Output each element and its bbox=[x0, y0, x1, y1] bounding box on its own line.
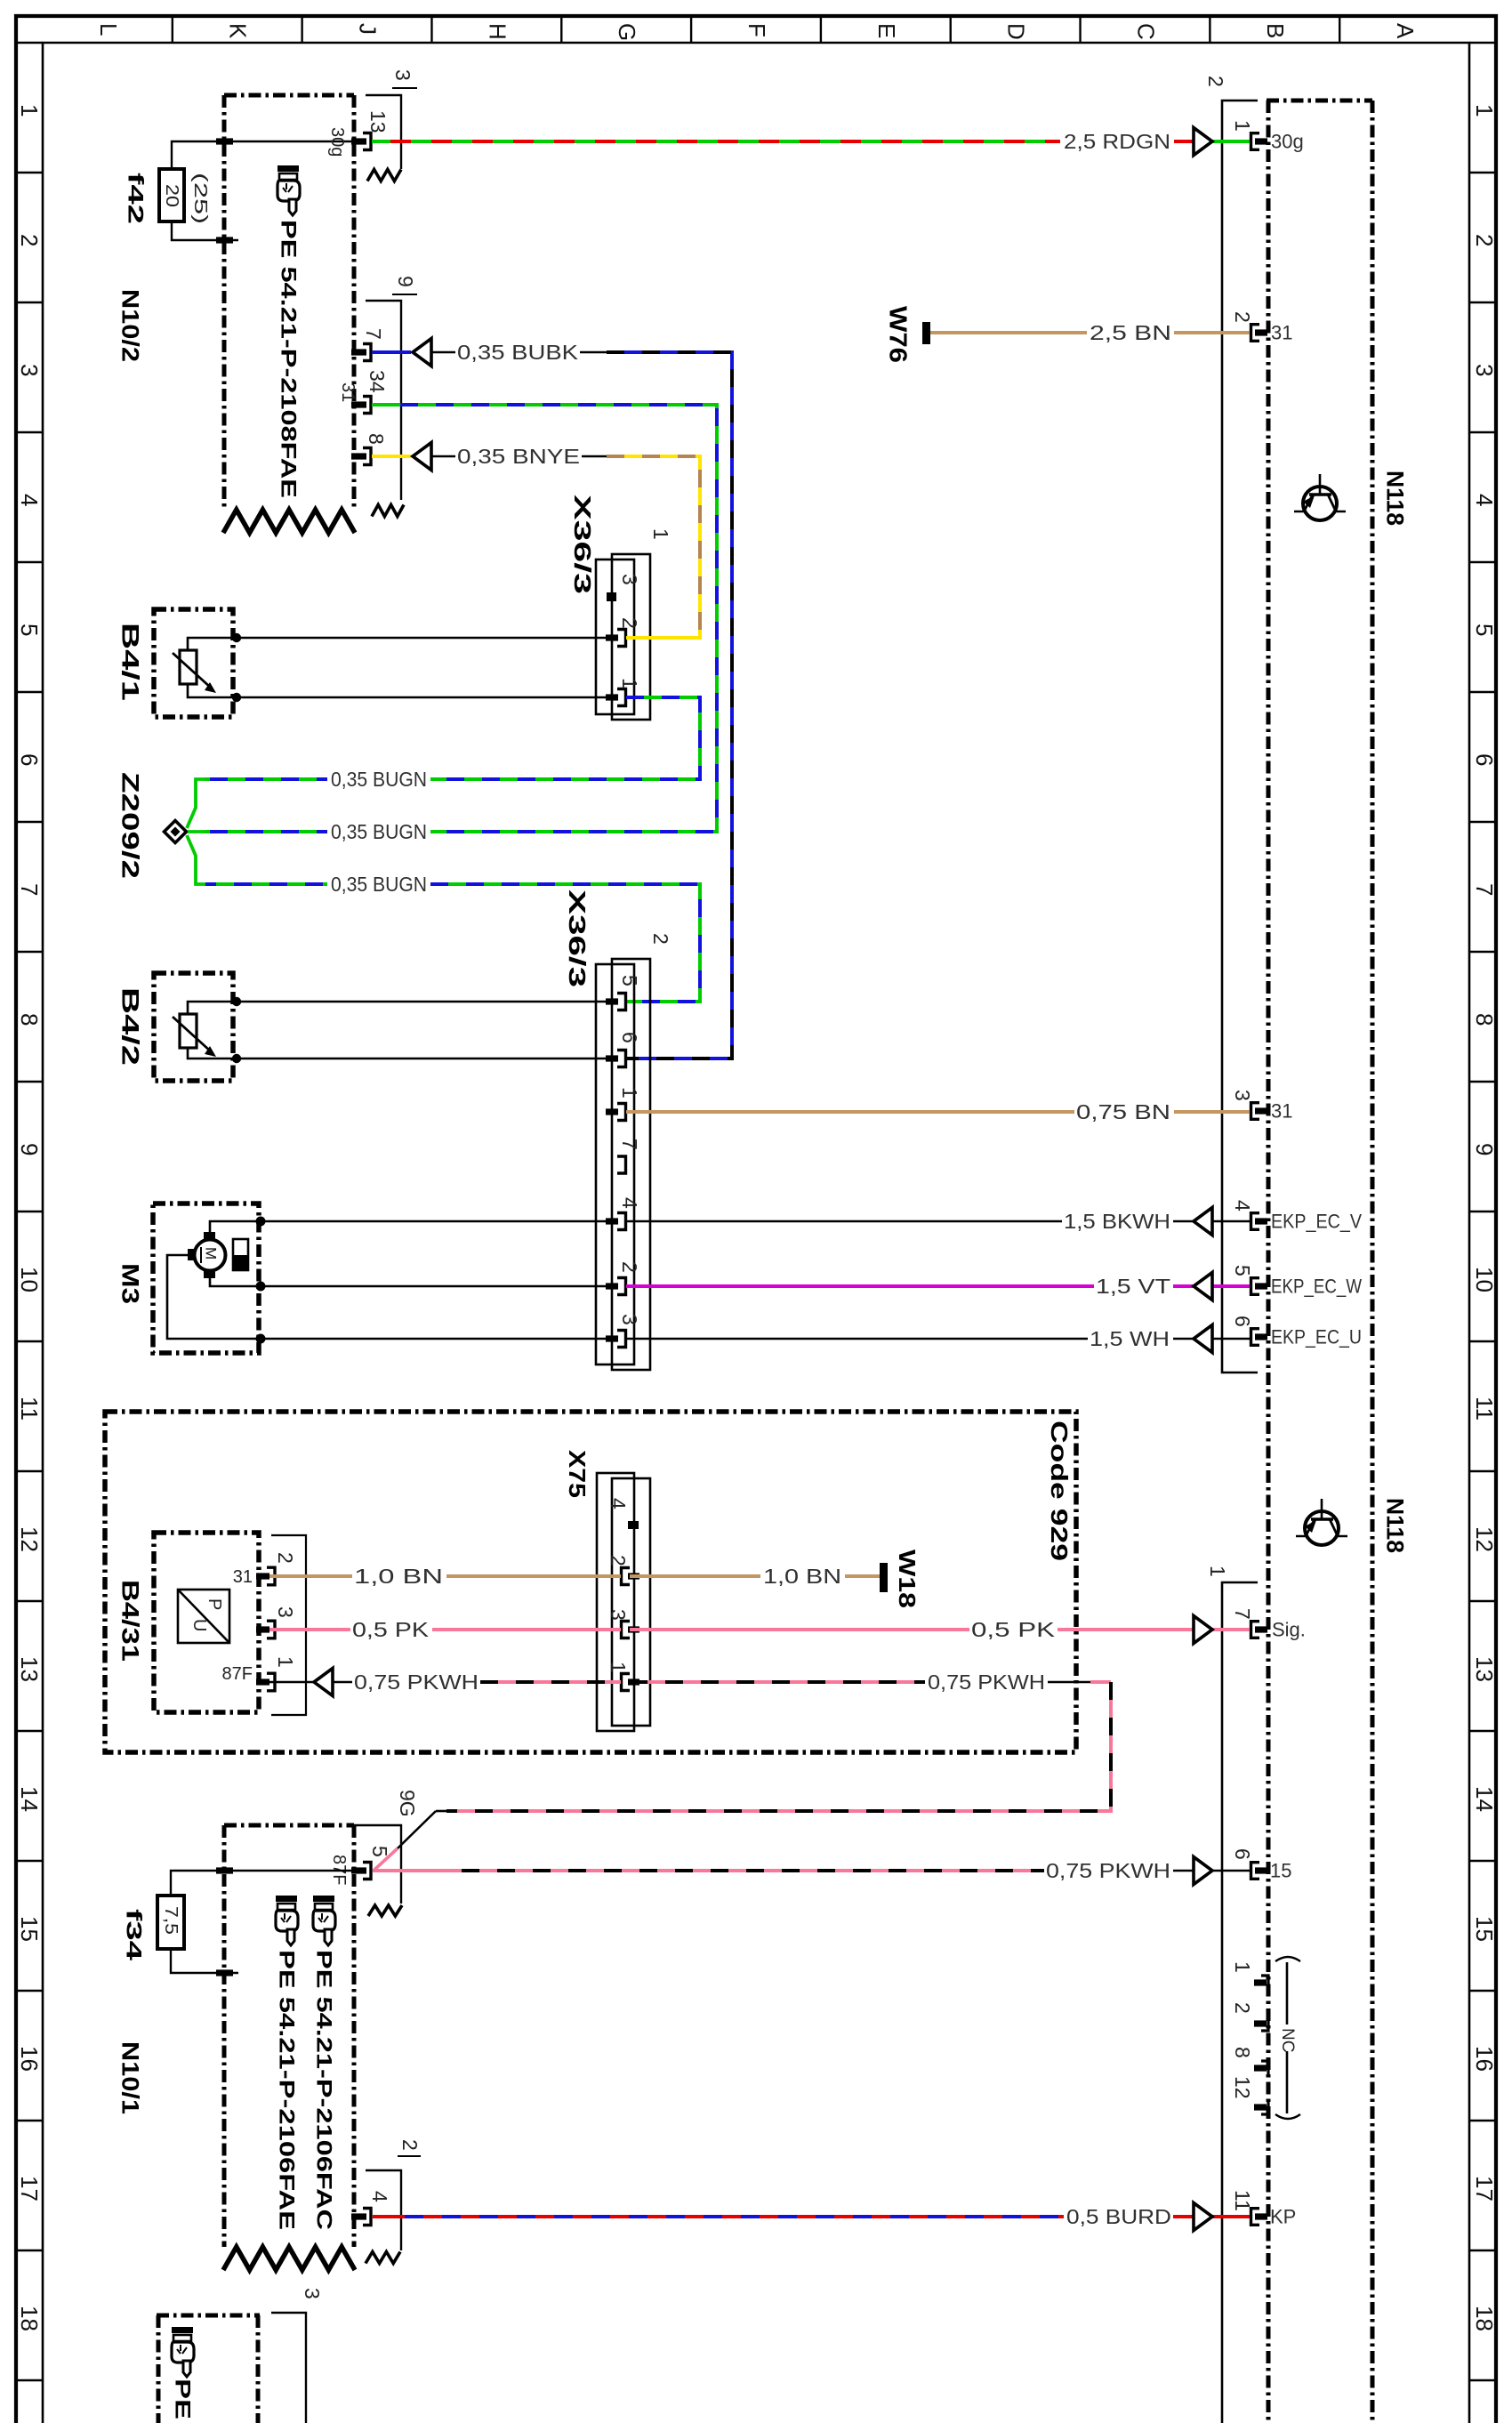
wire f42 to N10/2 pin 13 bbox=[172, 141, 351, 169]
X36/3(2) pin 5 bbox=[606, 975, 641, 1010]
svg-text:4: 4 bbox=[618, 1197, 641, 1209]
B4/31 pin 3 bbox=[256, 1606, 297, 1638]
svg-text:2: 2 bbox=[398, 2139, 422, 2151]
svg-text:10: 10 bbox=[1471, 1267, 1498, 1292]
svg-text:0,5 PK: 0,5 PK bbox=[352, 1618, 430, 1641]
X36/3(2) pin 4 bbox=[606, 1197, 641, 1230]
wire 2,5 RDGN (30g supply) bbox=[372, 140, 1060, 143]
svg-text:6: 6 bbox=[1231, 1848, 1254, 1860]
arrow on 0,35 BNYE bbox=[413, 443, 431, 471]
B4/31 P/U symbol bbox=[178, 1590, 229, 1643]
B4/1 variable resistor bbox=[180, 650, 197, 684]
svg-text:31: 31 bbox=[233, 1567, 253, 1587]
svg-text:M: M bbox=[203, 1247, 220, 1260]
svg-text:J: J bbox=[355, 23, 382, 35]
bottom PE hand icon bbox=[172, 2327, 194, 2377]
svg-text:0,75 PKWH: 0,75 PKWH bbox=[928, 1670, 1045, 1694]
svg-text:4: 4 bbox=[1231, 1200, 1254, 1211]
svg-text:2: 2 bbox=[618, 617, 641, 629]
svg-text:2: 2 bbox=[1471, 234, 1498, 246]
svg-text:5: 5 bbox=[1471, 624, 1498, 636]
wire 1,0 BN bbox=[269, 1574, 352, 1578]
svg-text:2,5 BN: 2,5 BN bbox=[1090, 321, 1171, 344]
svg-text:EKP_EC_W: EKP_EC_W bbox=[1271, 1276, 1362, 1298]
svg-text:X75: X75 bbox=[564, 1450, 591, 1498]
svg-text:A: A bbox=[1392, 23, 1419, 39]
transistor symbol U1 (N118 upper) bbox=[1294, 474, 1346, 520]
N10/1 box bottom cut zigzag bbox=[223, 2247, 355, 2270]
X36/3(2) pin 2 bbox=[606, 1261, 641, 1295]
N118 pin 4 (EKP_EC_V) bbox=[1231, 1200, 1362, 1233]
svg-text:3: 3 bbox=[1231, 1090, 1254, 1101]
svg-text:7: 7 bbox=[1471, 883, 1498, 896]
svg-text:1: 1 bbox=[649, 528, 672, 540]
B4/2 variable resistor bbox=[180, 1014, 197, 1048]
svg-text:9: 9 bbox=[1471, 1143, 1498, 1155]
wire f34 lower to N10/1 bbox=[171, 1949, 238, 1973]
svg-text:8: 8 bbox=[16, 1013, 43, 1026]
svg-text:W18: W18 bbox=[894, 1550, 921, 1608]
svg-text:16: 16 bbox=[16, 2046, 43, 2072]
svg-text:5: 5 bbox=[368, 1846, 391, 1857]
wire bottom 0,35 BUGN to X36/3(2) pin5 bbox=[205, 882, 327, 886]
wire 1,5 WH bbox=[626, 1338, 1088, 1340]
X36/3(2) pin 7 empty bbox=[617, 1156, 626, 1173]
X36/3(2) pin 1 bbox=[606, 1087, 641, 1121]
svg-text:12: 12 bbox=[1231, 2076, 1254, 2099]
wire 0,75 BN bbox=[626, 1110, 1074, 1114]
svg-text:3: 3 bbox=[618, 1314, 641, 1325]
svg-text:14: 14 bbox=[16, 1786, 43, 1812]
svg-text:3: 3 bbox=[607, 1609, 630, 1621]
svg-text:4: 4 bbox=[368, 2191, 391, 2202]
wire 1,5 BKWH bbox=[626, 1220, 1062, 1223]
svg-text:Code 929: Code 929 bbox=[1046, 1421, 1073, 1561]
svg-text:4: 4 bbox=[607, 1498, 630, 1509]
svg-text:G: G bbox=[614, 23, 640, 41]
svg-text:0,5 BURD: 0,5 BURD bbox=[1066, 2205, 1171, 2228]
svg-text:7: 7 bbox=[362, 328, 385, 340]
N10/2 pin 34 (31) bbox=[338, 370, 389, 414]
svg-text:87F: 87F bbox=[222, 1664, 253, 1684]
wire f42 lower to N10/2 bbox=[172, 221, 238, 240]
svg-text:3: 3 bbox=[16, 364, 43, 376]
svg-text:17: 17 bbox=[16, 2176, 43, 2202]
svg-text:10: 10 bbox=[16, 1267, 43, 1292]
svg-text:9: 9 bbox=[394, 276, 417, 287]
N118 connector 2 bar bbox=[1222, 101, 1258, 1372]
connector X75 body bbox=[597, 1473, 634, 1731]
svg-text:8: 8 bbox=[1231, 2047, 1254, 2058]
svg-text:1: 1 bbox=[1231, 120, 1254, 132]
svg-text:1,5 WH: 1,5 WH bbox=[1090, 1327, 1170, 1350]
svg-text:31: 31 bbox=[338, 382, 358, 402]
svg-text:Sig.: Sig. bbox=[1272, 1619, 1306, 1641]
svg-text:2: 2 bbox=[274, 1552, 297, 1564]
svg-text:2: 2 bbox=[1231, 311, 1254, 323]
svg-text:2: 2 bbox=[618, 1261, 641, 1273]
B4/2 wiring bbox=[188, 1002, 606, 1014]
svg-text:8: 8 bbox=[365, 433, 388, 445]
svg-text:1: 1 bbox=[618, 678, 641, 689]
X75 pin 3 bbox=[607, 1609, 639, 1638]
arrow on 1,5 VT bbox=[1194, 1273, 1212, 1300]
svg-text:0,35 BUGN: 0,35 BUGN bbox=[331, 873, 427, 896]
svg-text:1: 1 bbox=[618, 1087, 641, 1099]
svg-text:1,0 BN: 1,0 BN bbox=[763, 1565, 841, 1588]
arrow on 2,5 RDGN bbox=[1194, 128, 1212, 156]
svg-text:6: 6 bbox=[1231, 1316, 1254, 1327]
svg-text:16: 16 bbox=[1471, 2046, 1498, 2072]
svg-text:B4/1: B4/1 bbox=[117, 623, 144, 701]
M3 wiring bbox=[210, 1221, 606, 1232]
X36/3(1) pin 1 bbox=[606, 678, 641, 706]
svg-text:0,75 PKWH: 0,75 PKWH bbox=[1046, 1859, 1170, 1882]
N10/2 hand icon bbox=[277, 165, 300, 215]
arrow on 0,75 PKWH (terminal 15) bbox=[1194, 1857, 1212, 1885]
svg-text:12: 12 bbox=[16, 1526, 43, 1552]
svg-text:L: L bbox=[95, 23, 122, 36]
svg-text:8: 8 bbox=[1471, 1013, 1498, 1026]
wire N10/2 pin34 to splice (0,35 BUGN) bbox=[372, 403, 400, 407]
motor M3 dash-dot box bbox=[153, 1203, 259, 1353]
svg-text:2,5 RDGN: 2,5 RDGN bbox=[1064, 130, 1170, 153]
svg-text:3: 3 bbox=[618, 574, 641, 585]
svg-text:1,5 BKWH: 1,5 BKWH bbox=[1064, 1210, 1170, 1233]
svg-text:3: 3 bbox=[391, 69, 414, 81]
svg-text:7: 7 bbox=[618, 1139, 641, 1150]
svg-text:30g: 30g bbox=[1271, 131, 1304, 153]
svg-text:M3: M3 bbox=[117, 1263, 144, 1304]
X36/3(2) pin 6 bbox=[606, 1032, 641, 1067]
svg-text:2: 2 bbox=[607, 1555, 630, 1566]
svg-text:18: 18 bbox=[16, 2306, 43, 2331]
svg-text:0,75 PKWH: 0,75 PKWH bbox=[354, 1670, 479, 1694]
svg-text:0,5 PK: 0,5 PK bbox=[971, 1618, 1056, 1641]
arrow on 0,5 BURD bbox=[1194, 2203, 1212, 2231]
sensor B4/2 dash-dot box bbox=[154, 973, 233, 1081]
wire 0,35 BUBK bbox=[372, 350, 411, 354]
wire X36/3(1) pin1 to splice (0,35 BUGN) bbox=[430, 697, 700, 779]
top coordinate strip letters L-A bbox=[95, 14, 1419, 43]
svg-text:7,5: 7,5 bbox=[161, 1906, 181, 1935]
B4/1 wiring bbox=[188, 638, 606, 650]
B4/31 connector bracket bbox=[271, 1535, 306, 1715]
svg-text:3: 3 bbox=[1471, 364, 1498, 376]
ground terminal W76 bbox=[922, 322, 930, 344]
svg-text:17: 17 bbox=[1471, 2176, 1498, 2202]
svg-text:13: 13 bbox=[1471, 1656, 1498, 1682]
svg-text:1: 1 bbox=[274, 1656, 297, 1668]
sensor B4/1 dash-dot box bbox=[154, 609, 233, 717]
svg-text:1: 1 bbox=[1471, 104, 1498, 117]
svg-text:P: P bbox=[205, 1598, 224, 1610]
svg-text:F: F bbox=[744, 23, 770, 37]
wire 2,5 BN bbox=[930, 331, 1087, 334]
svg-text:2: 2 bbox=[16, 234, 43, 246]
Z209/2 green branches bbox=[187, 779, 205, 828]
svg-text:N118: N118 bbox=[1382, 471, 1409, 526]
svg-text:B4/31: B4/31 bbox=[117, 1580, 144, 1662]
svg-text:U: U bbox=[189, 1619, 209, 1631]
svg-text:1: 1 bbox=[607, 1662, 630, 1673]
N10/2 box bottom cut zigzag bbox=[223, 510, 355, 533]
N118 pin 1 (30g) bbox=[1231, 120, 1304, 153]
wire 0,75 PKWH (terminal 15) bbox=[373, 1869, 462, 1872]
N118 NC pins 1,2,8,12 bbox=[1231, 1957, 1300, 2119]
svg-text:30g: 30g bbox=[327, 127, 347, 157]
svg-text:13: 13 bbox=[366, 110, 390, 133]
svg-text:EKP_EC_V: EKP_EC_V bbox=[1271, 1211, 1362, 1233]
svg-text:5: 5 bbox=[1231, 1265, 1254, 1276]
N118 connector 1 bar bbox=[1222, 1582, 1258, 2423]
svg-text:0,35 BNYE: 0,35 BNYE bbox=[457, 445, 580, 468]
B4/31 pin 2 (31) bbox=[233, 1552, 297, 1587]
svg-text:0,35 BUGN: 0,35 BUGN bbox=[331, 820, 427, 843]
svg-text:PE 54.21-P-2106FAC: PE 54.21-P-2106FAC bbox=[312, 1950, 336, 2230]
svg-text:31: 31 bbox=[1271, 1100, 1292, 1123]
N118 pin 3 (31) bbox=[1231, 1090, 1293, 1123]
svg-text:PE 54.21-P-2106FAE: PE 54.21-P-2106FAE bbox=[275, 1950, 299, 2230]
svg-text:f34: f34 bbox=[122, 1909, 146, 1961]
svg-text:31: 31 bbox=[1271, 322, 1292, 344]
svg-text:4: 4 bbox=[16, 494, 43, 506]
N10/1 hand icons bbox=[276, 1896, 298, 1945]
wire 0,5 PK bbox=[269, 1628, 350, 1631]
svg-text:14: 14 bbox=[1471, 1786, 1498, 1812]
svg-text:11: 11 bbox=[1231, 2190, 1254, 2211]
svg-text:1,0 BN: 1,0 BN bbox=[354, 1565, 443, 1588]
wire 0,35 BNYE bbox=[372, 455, 411, 458]
ground terminal W18 bbox=[880, 1563, 888, 1592]
svg-text:4: 4 bbox=[1471, 494, 1498, 506]
wire 0,5 BURD bbox=[373, 2215, 405, 2218]
svg-text:0,35 BUGN: 0,35 BUGN bbox=[331, 768, 427, 791]
N10/2 pin 7 bbox=[351, 328, 385, 361]
splice Z209/2 symbol bbox=[165, 821, 187, 843]
wire 0,75 PKWH (Code 929) bbox=[269, 1681, 314, 1684]
svg-text:3: 3 bbox=[301, 2288, 324, 2299]
svg-text:D: D bbox=[1003, 23, 1030, 40]
svg-text:20: 20 bbox=[162, 184, 181, 207]
svg-text:5: 5 bbox=[618, 975, 641, 986]
arrow on 1,5 BKWH bbox=[1194, 1208, 1212, 1236]
svg-text:(25): (25) bbox=[190, 173, 210, 224]
wire X36/3(1) pin2 jumper (BNYE) bbox=[626, 636, 700, 640]
B4/31 pin 1 (87F) bbox=[222, 1656, 297, 1691]
svg-text:B: B bbox=[1262, 23, 1289, 38]
N10/1 pin 5 (87F) bbox=[329, 1846, 391, 1885]
connector X36/3 (1) body bbox=[596, 559, 634, 714]
svg-text:13: 13 bbox=[16, 1656, 43, 1682]
svg-text:7: 7 bbox=[16, 883, 43, 896]
svg-text:N10/2: N10/2 bbox=[117, 289, 144, 362]
N10/2 pin 13 (30g) bbox=[327, 110, 390, 157]
transistor symbol U2 (N118 lower) bbox=[1296, 1499, 1347, 1545]
svg-text:0,75 BN: 0,75 BN bbox=[1076, 1100, 1170, 1123]
X36/3(1) pin 3 blocked bbox=[607, 592, 616, 601]
control unit N118 dash-dot box bbox=[1267, 101, 1271, 2423]
svg-text:NC: NC bbox=[1278, 2028, 1297, 2052]
svg-text:5: 5 bbox=[16, 624, 43, 636]
arrow on 1,5 WH bbox=[1194, 1325, 1212, 1353]
arrow on 0,5 PK bbox=[1194, 1616, 1212, 1644]
svg-text:6: 6 bbox=[16, 753, 43, 766]
svg-text:2: 2 bbox=[1204, 76, 1227, 87]
M3 direction indicator bbox=[233, 1239, 248, 1270]
svg-text:H: H bbox=[484, 23, 511, 40]
svg-text:KP: KP bbox=[1270, 2206, 1296, 2228]
svg-text:C: C bbox=[1132, 23, 1159, 40]
arrow on 0,35 BUBK bbox=[413, 339, 431, 366]
svg-text:B4/2: B4/2 bbox=[117, 987, 144, 1066]
svg-text:f42: f42 bbox=[124, 173, 148, 224]
svg-text:34: 34 bbox=[366, 370, 389, 393]
svg-text:X36/3: X36/3 bbox=[564, 890, 591, 987]
svg-text:X36/3: X36/3 bbox=[569, 495, 596, 594]
svg-text:15: 15 bbox=[1471, 1916, 1498, 1942]
svg-text:12: 12 bbox=[1471, 1526, 1498, 1552]
M3 motor symbol bbox=[195, 1240, 226, 1271]
svg-text:9: 9 bbox=[16, 1143, 43, 1155]
svg-text:11: 11 bbox=[1471, 1397, 1498, 1421]
svg-text:15: 15 bbox=[16, 1916, 43, 1942]
N118 pin 6 (EKP_EC_U) bbox=[1231, 1316, 1362, 1348]
X36/3(1) pin 2 bbox=[606, 617, 641, 647]
X75 pin 2 bbox=[607, 1555, 639, 1585]
fuse f34 bbox=[157, 1896, 184, 1949]
svg-text:3: 3 bbox=[274, 1606, 297, 1618]
N10/2 pin 8 bbox=[351, 433, 388, 465]
svg-text:15: 15 bbox=[1270, 1860, 1291, 1882]
svg-text:11: 11 bbox=[16, 1397, 43, 1421]
N118 pin 11 (KP) bbox=[1231, 2190, 1296, 2228]
X75 pin 1 bbox=[607, 1662, 639, 1691]
svg-text:W76: W76 bbox=[884, 306, 912, 363]
svg-text:18: 18 bbox=[1471, 2306, 1498, 2331]
X36/3(2) pin 3 bbox=[606, 1314, 641, 1348]
svg-text:EKP_EC_U: EKP_EC_U bbox=[1271, 1326, 1362, 1348]
svg-text:N118: N118 bbox=[1382, 1498, 1409, 1553]
svg-text:9G: 9G bbox=[396, 1790, 419, 1817]
wire f34 to N10/1 87F bbox=[171, 1871, 225, 1896]
svg-text:7: 7 bbox=[1231, 1608, 1254, 1620]
svg-text:E: E bbox=[873, 23, 900, 38]
bottom PE dash-dot box (cut) bbox=[157, 2315, 161, 2423]
N118 pin 7 (Sig.) bbox=[1231, 1608, 1306, 1641]
N118 pin 6 (15) bbox=[1231, 1848, 1292, 1882]
svg-text:N10/1: N10/1 bbox=[117, 2041, 144, 2114]
svg-text:K: K bbox=[225, 23, 252, 39]
svg-text:1,5 VT: 1,5 VT bbox=[1096, 1275, 1170, 1298]
connector X36/3 (2) body bbox=[596, 964, 634, 1364]
svg-text:PE 54.21-P-2108FAE: PE 54.21-P-2108FAE bbox=[277, 220, 301, 498]
N10/1 pin 4 bbox=[351, 2191, 391, 2226]
svg-text:2: 2 bbox=[1231, 2002, 1254, 2014]
svg-text:1: 1 bbox=[1206, 1566, 1229, 1577]
N118 pin 5 (EKP_EC_W) bbox=[1231, 1265, 1362, 1298]
control unit N10/2 dash-dot box bbox=[222, 95, 227, 510]
svg-text:Z209/2: Z209/2 bbox=[117, 772, 144, 879]
svg-text:PE: PE bbox=[171, 2379, 195, 2419]
control unit N10/1 dash-dot box bbox=[222, 1825, 227, 2247]
svg-text:0,35 BUBK: 0,35 BUBK bbox=[457, 341, 579, 364]
sensor B4/31 dash-dot box bbox=[154, 1533, 259, 1712]
svg-text:2: 2 bbox=[649, 933, 672, 945]
wire 1,5 VT bbox=[626, 1284, 1094, 1288]
arrow on 0,75 PKWH (Code 929) bbox=[314, 1669, 333, 1696]
svg-text:1: 1 bbox=[1231, 1961, 1254, 1973]
svg-text:6: 6 bbox=[1471, 753, 1498, 766]
fuse f42 bbox=[159, 169, 184, 221]
svg-text:1: 1 bbox=[16, 104, 43, 117]
option box Code 929 bbox=[105, 1412, 1076, 1752]
N118 pin 2 (31) bbox=[1231, 311, 1293, 344]
svg-text:6: 6 bbox=[618, 1032, 641, 1043]
